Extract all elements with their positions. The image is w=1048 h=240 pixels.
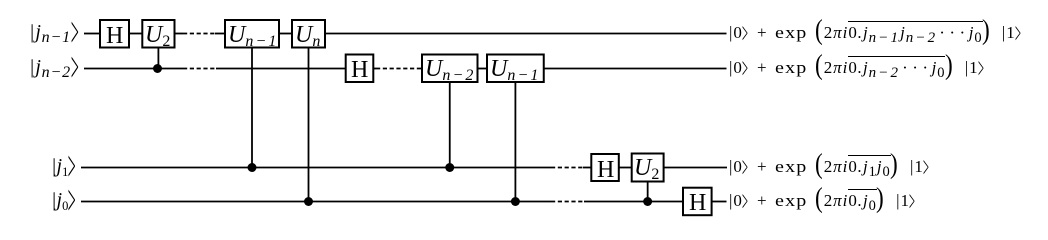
control dot w3 x252 <box>248 163 257 172</box>
wire segment: dashed ellipsis (wire 3) <box>551 167 583 169</box>
gate label Un w1 <box>295 22 322 49</box>
gate label H w3 <box>597 157 614 184</box>
qubit label |j_{n-1}> <box>29 22 81 42</box>
control dot w4 x648 <box>643 197 652 206</box>
wire segment: H to U2 (wire 3) <box>619 167 632 169</box>
control dot w4 x515 <box>511 197 520 206</box>
wire segment: dashed ellipsis 2 (wire 2) <box>376 68 422 70</box>
gate Un-2 wire2 <box>422 55 478 83</box>
control line: U_n(wire1) to control dot on wire 4 <box>308 48 310 202</box>
control dot w2 x158 <box>153 64 162 73</box>
gate label Un-1 w2b <box>490 56 540 83</box>
gate H wire1 <box>100 20 129 48</box>
wire segment: dashes through control dot to H (wire 4) <box>584 201 683 203</box>
control dot w4 x308 <box>304 197 313 206</box>
gate label H w4 <box>689 190 706 217</box>
gate Un-1 wire1 <box>225 20 279 48</box>
gate label U2 w1 <box>145 22 170 49</box>
gate label H w2 <box>351 57 368 84</box>
control line: U_n-2(wire2) to control dot on wire 3 <box>449 82 451 168</box>
control dot w3 x450 <box>445 163 454 172</box>
gate label H w1 <box>106 23 123 50</box>
wire segment: U_n-1 to U_n (wire 1) <box>279 33 292 35</box>
gate H wire3 <box>591 154 619 181</box>
wire segment: U_n-2 to U_n-1 (wire 2) <box>478 68 488 70</box>
output 1 <box>729 24 1023 42</box>
wire segment: U_n-1 to output (wire 2) <box>544 68 727 70</box>
wire segment: U_n to output (wire 1) <box>325 33 727 35</box>
output 3 <box>729 158 931 176</box>
output 4 <box>729 192 917 210</box>
wire segment: dashed ellipsis (wire 4) <box>551 201 584 203</box>
wire segment: H to output (wire 4) <box>712 201 727 203</box>
gate U2 wire1 <box>142 20 174 48</box>
gate Un-1 wire2 <box>487 55 544 83</box>
wire segment: dashed ellipsis (wire 1) <box>183 33 215 35</box>
wire segment: |j_n-1> input to H <box>84 33 100 35</box>
wire segment: H to dashes (wire 2) <box>373 68 376 70</box>
gate H wire4 <box>683 188 712 216</box>
wire segment: dashes to H (wire 3) <box>583 167 591 169</box>
wire segment: to H (wire 2) <box>216 68 346 70</box>
wire segment: U2 to output (wire 3) <box>664 167 727 169</box>
qubit label |j_{n-2}> <box>29 57 81 77</box>
gate Un wire1 <box>292 20 325 48</box>
qubit label |j_1> <box>51 156 78 176</box>
gate H wire2 <box>346 55 374 83</box>
gate U2 wire3 <box>632 154 664 182</box>
wire segment: |j_1> input through control dots <box>81 167 551 169</box>
control line: U2(wire3) to control dot on wire 4 <box>647 181 649 202</box>
wire segment: H to U2 (wire 1) <box>129 33 142 35</box>
gate label U2 w3 <box>634 155 659 182</box>
wire segment: |j_0> input through control dots <box>81 201 551 203</box>
control line: U2(wire1) to control dot on wire 2 <box>157 48 159 69</box>
gate label Un-1 w1 <box>228 22 278 49</box>
qubit label |j_0> <box>51 190 78 210</box>
gate label Un-2 w2 <box>425 56 475 83</box>
wire segment: |j_n-2> input through control dot <box>84 68 183 70</box>
control line: U_n-1(wire2) to control dot on wire 4 <box>514 82 516 202</box>
wire segment: U2 to dashes (wire 1) <box>175 33 184 35</box>
wire segment: dashed ellipsis (wire 2) <box>183 68 216 70</box>
control line: U_n-1(wire1) to control dot on wire 3 <box>251 48 253 168</box>
wire segment: dashes to U_n-1 (wire 1) <box>215 33 225 35</box>
output 2 <box>729 59 986 77</box>
